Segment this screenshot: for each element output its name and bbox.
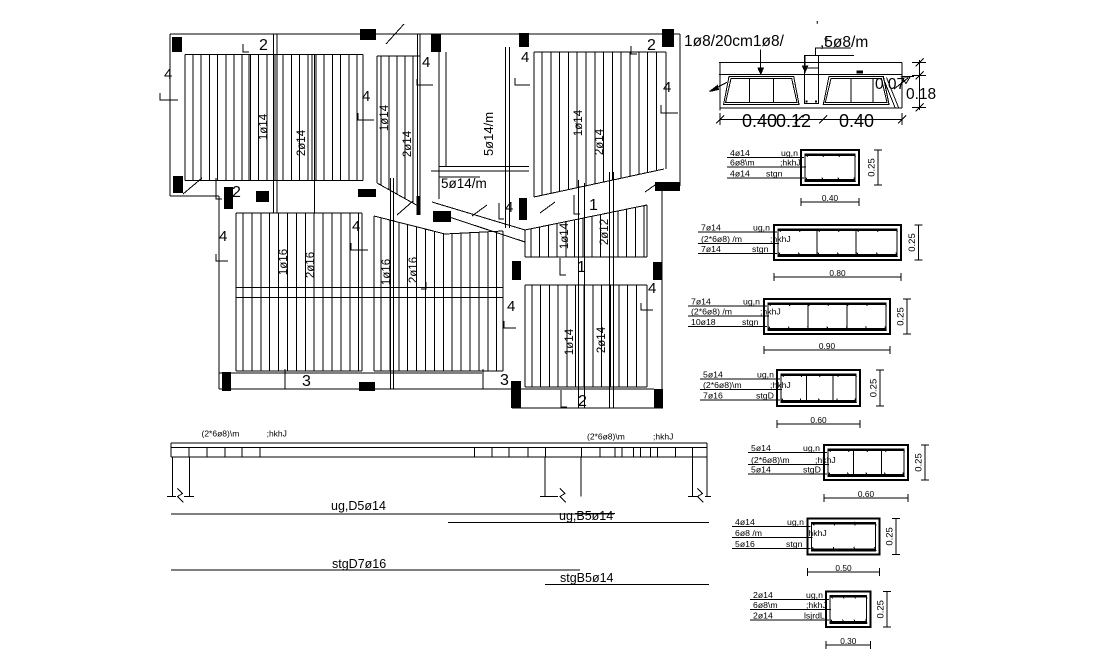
svg-text:stgD: stgD xyxy=(756,390,774,400)
stairwell left wall xyxy=(439,45,446,199)
stairwell bottom landing lines xyxy=(431,167,529,177)
slab panel P1 border and rib hatch xyxy=(185,54,363,180)
column C4 xyxy=(519,33,529,47)
svg-text:2ø16: 2ø16 xyxy=(305,252,317,278)
ribbed dim text 0.12 xyxy=(776,111,811,131)
svg-text:ug,n: ug,n xyxy=(743,297,760,307)
svg-text:0.40: 0.40 xyxy=(742,111,777,131)
plan bottom bay bottom wall xyxy=(512,407,663,409)
beam section B label (2*6&#248;8) /m xyxy=(698,234,791,244)
beam section F rebar layers xyxy=(812,522,877,551)
svg-text:2ø14: 2ø14 xyxy=(753,590,773,600)
rebar label 2ø16 panel P6 xyxy=(305,252,317,278)
svg-text:6ø8 /m: 6ø8 /m xyxy=(735,528,762,538)
svg-text:': ' xyxy=(816,18,818,33)
hollow block right xyxy=(823,77,889,105)
rebar label 2ø12 panel P4 xyxy=(599,219,611,245)
rebar label 1ø16 panel P7 xyxy=(381,259,393,285)
section mark 2 bottom xyxy=(561,390,587,410)
svg-text:2ø16: 2ø16 xyxy=(408,257,420,283)
svg-text:2: 2 xyxy=(259,37,268,54)
plan outer boundary right wall upper xyxy=(679,34,681,186)
svg-text:;hkhJ: ;hkhJ xyxy=(770,234,791,244)
svg-text:2: 2 xyxy=(578,393,587,410)
svg-text:3: 3 xyxy=(302,373,311,390)
beam elevation top flange xyxy=(171,443,707,457)
svg-text:ug,n: ug,n xyxy=(753,223,770,233)
small bracket P7 edge xyxy=(421,282,426,289)
column C8 xyxy=(256,191,269,202)
bar line ug,B5ø14 xyxy=(448,509,709,523)
svg-text:1: 1 xyxy=(589,197,598,214)
beam section F dim 0.25 xyxy=(885,518,901,554)
svg-text:(2*6ø8) /m: (2*6ø8) /m xyxy=(701,234,742,244)
break slash P1 bottom-left xyxy=(183,178,202,194)
ribbed dim text 0.40 left xyxy=(742,111,777,131)
svg-text:;hkhJ: ;hkhJ xyxy=(815,455,836,465)
plan outer boundary left wall lower xyxy=(218,196,220,389)
beam section D label 5&#248;14 xyxy=(700,369,780,379)
svg-text:lsjrdL: lsjrdL xyxy=(804,610,825,620)
beam section D label 7&#248;16 xyxy=(700,390,780,400)
black dash mark xyxy=(857,71,863,74)
beam section B rebar layers xyxy=(778,229,898,257)
beam section A dim 0.25 xyxy=(867,150,883,185)
leader line 5ø8/m xyxy=(803,48,855,72)
column C19 xyxy=(654,389,663,408)
svg-text:4: 4 xyxy=(521,49,529,66)
svg-text:4: 4 xyxy=(422,54,430,71)
slab panel P2 border and rib hatch xyxy=(377,56,420,207)
beam support right xyxy=(688,457,711,502)
corridor diagonal lower xyxy=(440,214,525,242)
corridor line above bottom wall xyxy=(219,372,482,374)
section mark 2 mid-left xyxy=(216,178,241,201)
beam section C dim 0.90 xyxy=(764,341,890,354)
section mark 4 stair bottom xyxy=(499,199,513,219)
beam section C label (2*6&#248;8) /m xyxy=(688,307,781,317)
beam section A outline xyxy=(801,150,859,185)
ribbed dim line bottom xyxy=(716,113,906,125)
svg-text:0.60: 0.60 xyxy=(858,489,875,499)
svg-text:2ø14: 2ø14 xyxy=(753,610,773,620)
beam section E stirrup dividers xyxy=(854,449,882,477)
svg-text:4: 4 xyxy=(505,199,513,216)
svg-text:;hkhJ: ;hkhJ xyxy=(806,600,827,610)
beam section G dim 0.30 xyxy=(826,636,871,649)
beam section C rebar layers xyxy=(768,303,887,331)
beam section E dim 0.25 xyxy=(914,445,930,480)
svg-text:stgn: stgn xyxy=(752,244,769,254)
beam section D dim 0.25 xyxy=(869,370,885,406)
svg-text:5ø16: 5ø16 xyxy=(735,539,755,549)
beam section D dim 0.60 xyxy=(777,415,860,428)
svg-text:0.60: 0.60 xyxy=(810,415,827,425)
svg-text:2: 2 xyxy=(232,184,241,201)
column C10 wall fill xyxy=(417,196,421,215)
svg-text:2ø14: 2ø14 xyxy=(402,130,414,157)
svg-text:;hkhJ: ;hkhJ xyxy=(770,380,791,390)
svg-text:(2*6ø8)\m: (2*6ø8)\m xyxy=(751,455,790,465)
ribbed dim line right xyxy=(912,59,926,112)
plan outer boundary left wall upper xyxy=(169,34,171,196)
ribbed dim text 0.07 xyxy=(875,76,905,93)
section mark 3 bottom-mid xyxy=(483,369,509,389)
svg-text:0.40: 0.40 xyxy=(839,111,874,131)
rebar label 1ø14 panel P5 xyxy=(564,328,576,355)
beam elevation stirrup ticks xyxy=(189,448,693,458)
beam section F dim 0.50 xyxy=(808,563,880,576)
svg-text:1ø14: 1ø14 xyxy=(564,328,576,355)
svg-text:0.40: 0.40 xyxy=(822,193,839,203)
rebar label 1ø14 panel P4 xyxy=(559,222,571,249)
rebar label 1ø14 panel P1 xyxy=(258,113,270,140)
beam section B outline xyxy=(774,225,901,260)
beam label (2*6ø8)\m right xyxy=(587,432,625,442)
svg-text:ug,B5ø14: ug,B5ø14 xyxy=(559,509,613,523)
section mark 3 bottom-left xyxy=(285,369,311,390)
column C3 xyxy=(431,34,441,52)
beam line x418 xyxy=(418,34,421,211)
column C7 xyxy=(224,187,233,209)
svg-text:0.50: 0.50 xyxy=(835,563,852,573)
beam line horizontal y287 xyxy=(236,288,503,298)
section mark 4 mid-left xyxy=(216,228,228,261)
svg-text:0.30: 0.30 xyxy=(840,636,857,646)
svg-text:4: 4 xyxy=(648,280,656,297)
svg-text:6ø8\m: 6ø8\m xyxy=(753,600,778,610)
leader line 20cm xyxy=(758,50,763,74)
beam section F label 5&#248;16 xyxy=(732,539,811,549)
beam line x580 xyxy=(579,180,585,408)
svg-text:4: 4 xyxy=(219,228,227,245)
bar line stgD7ø16 xyxy=(171,557,580,571)
section mark 4 stairwell right xyxy=(515,49,530,85)
svg-text:1ø8/20cm1ø8/: 1ø8/20cm1ø8/ xyxy=(684,33,785,50)
bar line stgB5ø14 xyxy=(545,571,709,585)
svg-text:(2*6ø8)\m: (2*6ø8)\m xyxy=(587,432,625,442)
svg-text:stgD: stgD xyxy=(803,465,821,475)
svg-text:stgn: stgn xyxy=(766,169,783,179)
break slash corridor b xyxy=(472,205,487,216)
section mark 4 left edge xyxy=(160,66,178,100)
beam section A label 4&#248;14 xyxy=(727,148,804,158)
svg-text:1ø14: 1ø14 xyxy=(573,109,585,136)
svg-text:7ø14: 7ø14 xyxy=(691,297,711,307)
section mark 1 lower xyxy=(560,258,586,276)
beam section C label 10&#248;18 xyxy=(688,317,767,327)
right block break diagonals xyxy=(883,78,899,108)
rebar label 1ø14 panel P3 xyxy=(573,109,585,136)
section mark 4 P5 left xyxy=(504,298,516,328)
break slash right corridor xyxy=(645,185,655,192)
beam line x314 xyxy=(313,54,315,213)
beam section E rebar layers xyxy=(828,449,905,477)
beam label (2*6ø8)\m left xyxy=(202,429,240,439)
slab panel P3 border and rib hatch xyxy=(534,52,666,197)
svg-text:0.25: 0.25 xyxy=(876,600,887,619)
svg-text:2ø14: 2ø14 xyxy=(594,128,606,155)
slab panel P5 border and rib hatch xyxy=(525,285,647,387)
leader text 1ø8/20cm1ø8/ xyxy=(684,33,785,50)
svg-text:0.80: 0.80 xyxy=(829,268,846,278)
svg-text:1: 1 xyxy=(577,259,586,276)
column C9 xyxy=(358,189,376,197)
ribbed slab top flange xyxy=(719,63,902,111)
beam section G dim 0.25 xyxy=(876,592,892,627)
svg-text:4: 4 xyxy=(507,298,515,315)
section mark 4 P1-P2 gap xyxy=(358,88,374,120)
beam line x391 xyxy=(391,178,394,389)
plan outer boundary bottom wall xyxy=(219,388,654,390)
svg-text:stgB5ø14: stgB5ø14 xyxy=(560,571,614,585)
svg-text:7ø16: 7ø16 xyxy=(703,390,723,400)
beam section A label 4&#248;14 xyxy=(727,169,804,179)
beam section E outline xyxy=(824,445,908,480)
svg-text:4ø14: 4ø14 xyxy=(730,169,750,179)
svg-text:0.25: 0.25 xyxy=(896,307,907,326)
section mark 4 right edge xyxy=(661,79,678,113)
svg-text:4: 4 xyxy=(164,66,172,83)
svg-text:;hkhJ: ;hkhJ xyxy=(267,429,287,439)
beam section B stirrup dividers xyxy=(817,229,856,257)
slab soffit tab xyxy=(902,76,914,78)
beam section C dim 0.25 xyxy=(896,299,912,334)
rebar label 2ø14 panel P5 xyxy=(596,326,608,353)
column C15 xyxy=(653,262,662,280)
beam section D outline xyxy=(777,370,860,406)
beam section E dim 0.60 xyxy=(824,489,908,502)
svg-text:(2*6ø8)\m: (2*6ø8)\m xyxy=(202,429,240,439)
svg-text:(2*6ø8) /m: (2*6ø8) /m xyxy=(691,307,732,317)
svg-text:ug,D5ø14: ug,D5ø14 xyxy=(331,499,386,513)
svg-text:0.12: 0.12 xyxy=(776,111,811,131)
svg-text:ug,n: ug,n xyxy=(787,517,804,527)
beam section A dim 0.40 xyxy=(801,193,859,206)
svg-text:7ø14: 7ø14 xyxy=(701,223,721,233)
svg-text:1ø16: 1ø16 xyxy=(381,259,393,285)
section mark 1 corridor xyxy=(574,195,598,214)
slab right break arrow xyxy=(894,77,910,89)
corridor diagonal upper xyxy=(432,202,525,230)
svg-text:5ø14: 5ø14 xyxy=(751,465,771,475)
svg-text:1ø14: 1ø14 xyxy=(559,222,571,249)
svg-text:stgD7ø16: stgD7ø16 xyxy=(332,557,386,571)
svg-text:;hkhJ: ;hkhJ xyxy=(760,307,781,317)
rebar label 2ø14 panel P1 xyxy=(296,129,308,156)
svg-text:ug,n: ug,n xyxy=(803,443,820,453)
svg-text:stgn: stgn xyxy=(742,317,759,327)
rebar label 1ø16 panel P6 xyxy=(278,249,290,275)
column C13 right xyxy=(655,182,680,191)
plan boundary left step xyxy=(170,195,219,197)
svg-text:4: 4 xyxy=(362,88,370,105)
column C16 xyxy=(222,372,231,391)
svg-text:0.90: 0.90 xyxy=(819,341,836,351)
leader text 5ø8/m xyxy=(816,18,868,51)
svg-text:5ø14: 5ø14 xyxy=(703,369,723,379)
column C14 xyxy=(512,261,521,280)
beam section F outline xyxy=(808,518,880,554)
beam section B label 7&#248;14 xyxy=(698,223,777,233)
plan outer boundary top wall xyxy=(170,33,680,35)
svg-text:1ø14: 1ø14 xyxy=(258,113,270,140)
plan outer boundary right wall lower xyxy=(661,186,663,408)
svg-text:5ø14/m: 5ø14/m xyxy=(481,112,496,156)
column C2 xyxy=(360,29,376,40)
beam section F label 6&#248;8 /m xyxy=(732,528,827,538)
beam section G label 2&#248;14 xyxy=(750,590,829,600)
beam section E label 5&#248;14 xyxy=(748,465,827,475)
beam section C stirrup dividers xyxy=(808,303,847,331)
svg-text:ug,n: ug,n xyxy=(806,590,823,600)
slab left break arrow xyxy=(710,82,728,91)
section mark 2 top-left xyxy=(243,37,268,54)
stair label 5ø14/m vertical xyxy=(481,112,496,156)
beam section D label (2*6&#248;8)\m xyxy=(700,380,791,390)
svg-text:0.18: 0.18 xyxy=(906,86,936,103)
section mark 4 P5 right xyxy=(641,280,656,310)
beam section G rebar layers xyxy=(830,595,867,623)
svg-text:0.07: 0.07 xyxy=(875,76,905,93)
ribbed dim text 0.18 xyxy=(906,86,936,103)
bar line ug,D5ø14 xyxy=(171,499,614,514)
stair label 5ø14/m horizontal xyxy=(441,176,487,191)
column C11 xyxy=(433,211,451,222)
svg-text:(2*6ø8)\m: (2*6ø8)\m xyxy=(703,380,742,390)
svg-text:2: 2 xyxy=(647,37,656,54)
beam section F label 4&#248;14 xyxy=(732,517,811,527)
beam section B dim 0.25 xyxy=(907,225,923,260)
slab panel P7 border and rib hatch xyxy=(374,216,503,371)
column C12 xyxy=(519,198,527,220)
svg-text:1ø16: 1ø16 xyxy=(278,249,290,275)
svg-text:2ø14: 2ø14 xyxy=(296,129,308,156)
svg-text:4ø14: 4ø14 xyxy=(735,517,755,527)
svg-text:2ø14: 2ø14 xyxy=(596,326,608,353)
beam section B label 7&#248;14 xyxy=(698,244,777,254)
beam label ;hkhJ right xyxy=(653,432,673,442)
rebar label 1ø14 panel P2 xyxy=(379,104,391,131)
beam label ;hkhJ left xyxy=(267,429,287,439)
svg-text:7ø14: 7ø14 xyxy=(701,244,721,254)
beam section E label (2*6&#248;8)\m xyxy=(748,455,836,465)
rebar label 2ø16 panel P7 xyxy=(408,257,420,283)
beam section G outline xyxy=(826,592,871,627)
beam section G label 2&#248;14 xyxy=(750,610,829,620)
rib with upstand xyxy=(804,55,818,103)
column C6 left xyxy=(173,176,183,193)
svg-text:1ø14: 1ø14 xyxy=(379,104,391,131)
svg-text:4: 4 xyxy=(352,218,360,235)
rebar label 2ø14 panel P2 xyxy=(402,130,414,157)
break slash top edge xyxy=(386,24,404,44)
beam support left xyxy=(167,457,194,502)
svg-text:3: 3 xyxy=(500,372,509,389)
beam line x611 xyxy=(610,172,614,408)
column C17 xyxy=(359,382,375,391)
section mark 4 stairwell left xyxy=(417,54,433,85)
svg-text:;hkhJ: ;hkhJ xyxy=(653,432,673,442)
column C18 xyxy=(511,381,521,408)
ribbed dim text 0.40 right xyxy=(839,111,874,131)
column C5 top-right xyxy=(662,29,674,47)
stairwell right wall xyxy=(506,47,510,228)
beam section E label 5&#248;14 xyxy=(748,443,827,453)
beam section A rebar layers xyxy=(805,154,856,182)
svg-text:ug,n: ug,n xyxy=(781,148,798,158)
hollow block left xyxy=(724,77,799,105)
slab panel P4 border and rib hatch xyxy=(525,205,647,257)
column C1 top-left xyxy=(172,37,182,52)
svg-text:;hkhJ: ;hkhJ xyxy=(780,158,801,168)
beam section B dim 0.80 xyxy=(774,268,901,281)
svg-text:6ø8\m: 6ø8\m xyxy=(730,158,755,168)
svg-text:5ø14: 5ø14 xyxy=(751,443,771,453)
svg-text:0.25: 0.25 xyxy=(885,527,896,546)
break slash corridor d xyxy=(540,202,555,213)
beam section D rebar layers xyxy=(781,374,857,403)
ribbed slab bottom line xyxy=(720,107,902,109)
svg-text:f: f xyxy=(824,33,828,49)
svg-text:10ø18: 10ø18 xyxy=(691,317,716,327)
beam section C outline xyxy=(764,299,890,334)
svg-text:0.25: 0.25 xyxy=(869,379,880,398)
svg-text:stgn: stgn xyxy=(786,539,803,549)
svg-text:0.25: 0.25 xyxy=(914,453,925,472)
svg-text:ug,n: ug,n xyxy=(757,369,774,379)
beam section G label 6&#248;8\m xyxy=(750,600,831,610)
svg-text:4: 4 xyxy=(663,79,671,96)
svg-text:4ø14: 4ø14 xyxy=(730,148,750,158)
svg-text:0.25: 0.25 xyxy=(907,233,918,252)
rebar label 2ø14 panel P3 xyxy=(594,128,606,155)
slab panel P6 border and rib hatch xyxy=(236,213,362,371)
beam support middle xyxy=(540,457,581,502)
section mark 2 top-right xyxy=(631,37,656,54)
section mark 4 P7 left xyxy=(351,218,368,250)
break slash corridor a xyxy=(397,201,413,215)
beam line x274 xyxy=(274,34,278,213)
beam section A label 6&#248;8\m xyxy=(727,158,806,168)
svg-text:5ø14/m: 5ø14/m xyxy=(441,176,487,191)
beam section D stirrup dividers xyxy=(807,374,833,403)
svg-text:0.25: 0.25 xyxy=(867,158,878,177)
svg-text:;hkhJ: ;hkhJ xyxy=(806,528,827,538)
beam section C label 7&#248;14 xyxy=(688,297,767,307)
